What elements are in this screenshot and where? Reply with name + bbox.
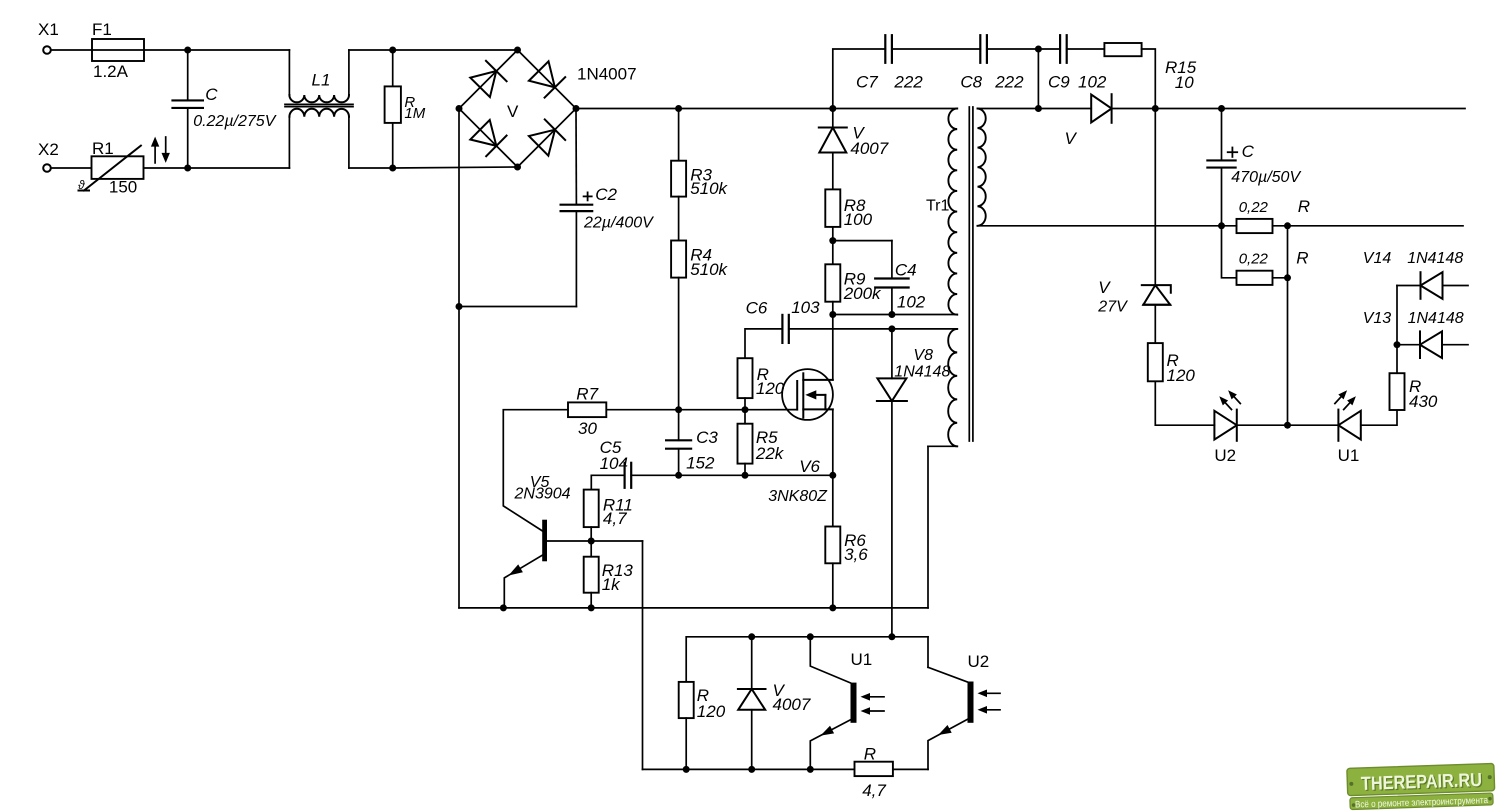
node bridge left bbox=[456, 105, 463, 112]
svg-text:U2: U2 bbox=[968, 652, 990, 671]
node source line bbox=[829, 472, 836, 479]
resistor R 120 (opto) bbox=[679, 682, 694, 718]
svg-text:R: R bbox=[864, 745, 876, 764]
svg-text:430: 430 bbox=[1409, 392, 1438, 411]
node V13 bbox=[1394, 341, 1401, 348]
node C2 return bbox=[456, 303, 463, 310]
wire C2 to left vertical bbox=[459, 306, 576, 308]
capacitor C 470u/50V bbox=[1207, 159, 1235, 161]
wire R5 to C5 line bbox=[744, 464, 746, 476]
node R3 top bbox=[675, 105, 682, 112]
wire C 470u bottom lead bbox=[1221, 168, 1223, 226]
diode V 4007 (opto) bbox=[738, 689, 766, 710]
capacitor C9 102 bbox=[1059, 35, 1061, 63]
wire C5 to C3 node bbox=[631, 474, 678, 476]
diode V8 1N4148 bbox=[877, 378, 907, 401]
wire U1 emitter bbox=[810, 720, 851, 770]
thermistor R1 diagonal bbox=[79, 190, 90, 192]
wire node to V13 bbox=[1397, 344, 1420, 346]
resistor R 120 (zener chain) bbox=[1148, 343, 1163, 381]
wire U2 to center node bbox=[1237, 424, 1288, 426]
wire to bridge bottom bbox=[393, 167, 518, 168]
wire aux top lead bbox=[892, 328, 957, 330]
capacitor C5 104 bbox=[623, 463, 625, 488]
svg-text:3NK80Z: 3NK80Z bbox=[768, 488, 828, 505]
svg-text:L1: L1 bbox=[312, 71, 331, 90]
node base line bbox=[588, 538, 595, 545]
terminal X1 bbox=[43, 46, 51, 54]
node R5 bottom bbox=[742, 472, 749, 479]
capacitor C lead bottom bbox=[187, 108, 189, 168]
diode V (output rectifier) bbox=[1091, 94, 1111, 123]
svg-text:2N3904: 2N3904 bbox=[514, 486, 571, 503]
wire U2 collector down bbox=[927, 637, 929, 668]
fuse F1 bbox=[92, 39, 144, 61]
LED U1 light arrow 1 bbox=[1344, 401, 1351, 409]
wire node to R13 bbox=[590, 541, 592, 557]
wire R 120 to opto bottom rail bbox=[685, 718, 687, 769]
wire R7 to C3 node bbox=[606, 409, 678, 411]
svg-text:4,7: 4,7 bbox=[603, 509, 627, 528]
wire R11 to C5 bbox=[591, 475, 624, 489]
U1 light arrow 1 bbox=[868, 696, 884, 698]
bridge diode top-left bbox=[470, 61, 507, 98]
svg-text:V14: V14 bbox=[1363, 250, 1392, 267]
inductor L1 winding top bbox=[289, 95, 349, 102]
wire to 0,22 bottom bbox=[1222, 226, 1237, 278]
svg-text:0,22: 0,22 bbox=[1239, 251, 1269, 268]
wire left vertical to bottom rail bbox=[458, 307, 460, 608]
svg-text:V: V bbox=[1098, 278, 1111, 297]
node LED line center bbox=[1284, 422, 1291, 429]
wire R 4,7 to U2 emitter bbox=[893, 768, 928, 770]
svg-text:C6: C6 bbox=[746, 299, 768, 318]
transistor V5 2N3904 base bar bbox=[542, 520, 547, 562]
resistor R4 510k bbox=[671, 241, 686, 278]
wire node to C4 top bbox=[833, 240, 892, 242]
svg-text:120: 120 bbox=[1167, 366, 1196, 385]
transformer Tr1 core bbox=[968, 107, 970, 441]
wire node up to C7 bbox=[833, 49, 886, 109]
wire L1 to R 1M top bbox=[349, 49, 393, 51]
svg-text:X1: X1 bbox=[38, 20, 59, 39]
node aux top/V8 bbox=[888, 325, 895, 332]
wire output rail 1 to edge bbox=[1222, 108, 1466, 110]
wire node to diode V 4007 bbox=[832, 109, 834, 127]
wire R1 to node bbox=[144, 167, 188, 169]
svg-text:V13: V13 bbox=[1363, 310, 1392, 327]
node R 1M bottom bbox=[389, 165, 396, 172]
wire U2 emitter bbox=[928, 719, 968, 769]
resistor R5 22k bbox=[738, 424, 753, 464]
C 470u plus sign bbox=[1228, 151, 1238, 153]
svg-text:510k: 510k bbox=[690, 260, 728, 279]
svg-text:F1: F1 bbox=[92, 20, 112, 39]
wire rail R3 node to V/C7 node bbox=[679, 108, 833, 110]
U2 light arrow 2 bbox=[985, 709, 1000, 711]
wire to rectifier diode V bbox=[1038, 108, 1091, 110]
wire R 430 to V13 node bbox=[1396, 345, 1398, 374]
svg-text:0,22: 0,22 bbox=[1239, 199, 1269, 216]
node U1 collector bbox=[807, 633, 814, 640]
svg-text:1N4148: 1N4148 bbox=[894, 364, 950, 381]
resistor R 430 bbox=[1390, 373, 1405, 410]
wire down to LED line bbox=[1287, 278, 1289, 425]
wire R 120 to LED U2 bbox=[1155, 381, 1214, 425]
node R15/zener bbox=[1152, 105, 1159, 112]
capacitor C8 222 bbox=[979, 35, 981, 63]
svg-text:3,6: 3,6 bbox=[844, 545, 868, 564]
capacitor C4 102 bbox=[875, 277, 908, 279]
wire bottom rail right part bbox=[833, 607, 928, 609]
wire R6 to bottom rail bbox=[832, 563, 834, 608]
wire zener to R 120 bbox=[1154, 305, 1156, 343]
capacitor C (X-cap) lead top bbox=[187, 50, 189, 101]
svg-text:22µ/400V: 22µ/400V bbox=[583, 215, 654, 232]
wire L1 right bottom lead bbox=[348, 117, 350, 168]
node secondary top bbox=[1035, 105, 1042, 112]
wire R13 to bottom rail bbox=[590, 593, 592, 608]
svg-text:103: 103 bbox=[791, 298, 820, 317]
bridge diode bottom-right bbox=[528, 119, 565, 156]
optocoupler U2 phototransistor bbox=[968, 682, 974, 723]
wire node to R9 bbox=[832, 241, 834, 265]
svg-text:R7: R7 bbox=[576, 385, 598, 404]
node gate line R120/R5 bbox=[742, 406, 749, 413]
svg-text:U2: U2 bbox=[1214, 446, 1236, 465]
svg-text:U1: U1 bbox=[1338, 446, 1360, 465]
svg-text:30: 30 bbox=[578, 419, 597, 438]
wire R11 to base node bbox=[590, 527, 592, 541]
svg-text:THEREPAIR.RU: THEREPAIR.RU bbox=[1361, 770, 1483, 795]
transformer Tr1 primary winding bbox=[948, 109, 957, 315]
bridge rectifier V 1N4007 outline bbox=[459, 50, 576, 167]
wire U1 collector bbox=[810, 637, 850, 683]
svg-text:1N4148: 1N4148 bbox=[1407, 250, 1463, 267]
inductor L1 winding bottom bbox=[289, 109, 349, 117]
wire base corner down to opto rail bbox=[642, 541, 644, 769]
terminal X2 bbox=[43, 164, 51, 172]
svg-text:22k: 22k bbox=[755, 444, 785, 463]
svg-text:V8: V8 bbox=[913, 347, 933, 364]
wire R8 to node bbox=[832, 227, 834, 241]
wire rail up to aux winding bottom bbox=[927, 446, 929, 608]
node rail2/0,22 bbox=[1218, 222, 1225, 229]
wire to bridge top bbox=[393, 49, 518, 51]
wire opto rail top left bbox=[686, 637, 752, 682]
node C 470u top bbox=[1218, 105, 1225, 112]
wire C4 bottom lead bbox=[891, 288, 893, 315]
LED U1 light arrow 2 bbox=[1335, 395, 1342, 403]
node C8/C9 bbox=[1035, 46, 1042, 53]
node bridge right bbox=[573, 105, 580, 112]
U2 emitter arrow bbox=[938, 725, 952, 735]
svg-text:C4: C4 bbox=[895, 260, 917, 279]
node 0,22 bottom right bbox=[1284, 274, 1291, 281]
wire node to V 4007 (opto) bbox=[751, 637, 753, 689]
node V4007 top bbox=[748, 633, 755, 640]
wire C5 line bbox=[679, 474, 745, 476]
svg-text:1.2A: 1.2A bbox=[93, 62, 129, 81]
U1 emitter arrow bbox=[821, 726, 835, 736]
wire C8 to node bbox=[987, 48, 1039, 50]
wire X2 to R1 bbox=[51, 167, 92, 169]
svg-text:1k: 1k bbox=[602, 575, 621, 594]
resistor R9 200k bbox=[825, 264, 840, 301]
wire V14 to edge bbox=[1443, 285, 1469, 287]
svg-text:V: V bbox=[507, 102, 519, 121]
wire 0,22 right link bbox=[1287, 226, 1289, 278]
node snubber top bbox=[829, 105, 836, 112]
U1 light arrow 2 bbox=[868, 710, 884, 712]
wire opto top rail bbox=[752, 636, 811, 638]
wire center node to U1 bbox=[1288, 424, 1339, 426]
wire node down to secondary rail bbox=[1037, 49, 1039, 109]
node bridge bottom bbox=[514, 164, 521, 171]
node input bottom bbox=[184, 165, 191, 172]
C2 plus sign bbox=[584, 195, 592, 197]
svg-text:0.22µ/275V: 0.22µ/275V bbox=[193, 113, 277, 130]
svg-text:100: 100 bbox=[844, 210, 873, 229]
resistor R15 10 bbox=[1104, 43, 1141, 56]
node R6 bottom rail bbox=[829, 604, 836, 611]
svg-text:120: 120 bbox=[697, 702, 726, 721]
svg-text:C: C bbox=[1242, 142, 1255, 161]
wire R3 to R4 bbox=[678, 197, 680, 241]
wire R15 to output rail bbox=[1142, 49, 1156, 109]
svg-text:120: 120 bbox=[756, 379, 785, 398]
svg-text:4007: 4007 bbox=[773, 695, 811, 714]
node V8 opto rail bbox=[888, 633, 895, 640]
wire V5 base to node bbox=[547, 540, 591, 542]
wire node to R3 bbox=[678, 109, 680, 161]
resistor R 4,7 bbox=[855, 762, 893, 776]
wire secondary top lead bbox=[978, 108, 1039, 110]
wire R7 to V5 collector bbox=[503, 410, 568, 531]
node 0,22 top right bbox=[1284, 222, 1291, 229]
wire bridge left node down bbox=[458, 109, 460, 307]
wire R120 to gate line bbox=[744, 398, 746, 410]
node input top bbox=[184, 47, 191, 54]
svg-text:510k: 510k bbox=[690, 179, 728, 198]
svg-text:Tr1: Tr1 bbox=[926, 197, 950, 214]
wire C9 to R15 bbox=[1067, 48, 1105, 50]
transistor V5 emitter bbox=[504, 554, 544, 608]
resistor R6 3,6 bbox=[825, 527, 840, 564]
svg-text:10: 10 bbox=[1175, 73, 1194, 92]
node R8/R9/C4 bbox=[829, 237, 836, 244]
logo THEREPAIR.RU badge bbox=[1347, 763, 1495, 810]
svg-text:R: R bbox=[1298, 197, 1310, 216]
wire C5 line to source bbox=[745, 474, 833, 476]
resistor R 120 (gate) bbox=[738, 358, 753, 398]
wire output rail 2 left part bbox=[978, 225, 1222, 227]
capacitor C7 222 bbox=[884, 35, 886, 63]
svg-text:27V: 27V bbox=[1097, 299, 1128, 316]
svg-text:C7: C7 bbox=[856, 73, 878, 92]
wire L1 right top lead bbox=[348, 50, 350, 95]
LED U2 light arrow 2 bbox=[1233, 395, 1240, 403]
svg-text:V6: V6 bbox=[799, 457, 820, 476]
wire node up to V14 bbox=[1396, 286, 1398, 345]
wire V8 down to opto rail bbox=[891, 401, 893, 637]
optocoupler U1 phototransistor bbox=[851, 683, 857, 723]
wire base line to corner bbox=[591, 540, 642, 542]
wire primary bottom lead left bbox=[833, 314, 892, 316]
wire C7 to C8 bbox=[892, 48, 980, 50]
resistor R8 100 bbox=[825, 189, 840, 227]
resistor R 1M bbox=[392, 50, 394, 86]
wire L1 left top lead bbox=[288, 50, 290, 95]
node bridge top bbox=[514, 47, 521, 54]
arrow up (varistor mark) bbox=[154, 145, 156, 163]
node V5 emitter rail bbox=[500, 604, 507, 611]
wire aux bottom lead bbox=[928, 445, 957, 447]
transistor V5 emitter arrow bbox=[509, 564, 523, 575]
wire output rail 1 part bbox=[1155, 108, 1221, 110]
wire diode to node bbox=[1112, 108, 1156, 110]
wire R4 down to gate line bbox=[678, 278, 680, 410]
wire to MOSFET gate bbox=[745, 409, 797, 411]
inductor L1 core bbox=[285, 103, 353, 105]
capacitor C6 103 bbox=[781, 315, 783, 343]
svg-text:1M: 1M bbox=[404, 105, 425, 122]
svg-text:U1: U1 bbox=[851, 650, 873, 669]
svg-text:C8: C8 bbox=[960, 73, 982, 92]
wire gate line bbox=[679, 409, 745, 411]
svg-text:C: C bbox=[205, 85, 218, 104]
svg-text:222: 222 bbox=[893, 73, 923, 92]
LED U2 light arrow 1 bbox=[1224, 401, 1231, 409]
wire bottom rail left part bbox=[459, 607, 833, 609]
svg-text:ϑ: ϑ bbox=[78, 178, 85, 192]
wire C4 top lead bbox=[891, 241, 893, 279]
svg-text:C9: C9 bbox=[1048, 73, 1070, 92]
U2 light arrow 1 bbox=[985, 692, 1000, 694]
wire to V14 bbox=[1397, 285, 1421, 287]
svg-text:4007: 4007 bbox=[850, 139, 888, 158]
svg-text:222: 222 bbox=[994, 73, 1024, 92]
wire output rail 2 to edge bbox=[1288, 225, 1464, 227]
wire X1 to F1 bbox=[51, 49, 92, 51]
capacitor C2 22u/400V bbox=[561, 204, 593, 206]
svg-text:470µ/50V: 470µ/50V bbox=[1231, 169, 1301, 186]
wire node to L1 bottom-left bbox=[188, 167, 290, 169]
svg-text:102: 102 bbox=[897, 293, 926, 312]
capacitor C3 152 bbox=[678, 410, 680, 441]
wire U2 collector diagonal bbox=[928, 667, 968, 682]
svg-text:V: V bbox=[1065, 129, 1078, 148]
wire rail to Tr1 primary top bbox=[833, 108, 957, 110]
transformer Tr1 secondary winding bbox=[978, 109, 986, 226]
transformer Tr1 auxiliary winding bbox=[948, 329, 957, 446]
svg-text:150: 150 bbox=[109, 178, 137, 197]
wire node to V8 bbox=[891, 329, 893, 379]
LED U1 bbox=[1338, 410, 1360, 441]
svg-text:X2: X2 bbox=[38, 140, 59, 159]
wire rail to R 4,7 bbox=[810, 768, 854, 770]
wire node to R5 bbox=[744, 410, 746, 424]
LED U2 bbox=[1214, 410, 1236, 441]
diode V14 1N4148 bbox=[1421, 272, 1443, 299]
wire V13 to edge bbox=[1442, 344, 1468, 346]
node C3/C5 line bbox=[675, 472, 682, 479]
diode V13 1N4148 bbox=[1420, 331, 1442, 358]
wire MOSFET source down bbox=[832, 409, 834, 475]
bridge diode top-right bbox=[528, 61, 565, 98]
MOSFET V6 3NK80Z bbox=[782, 369, 833, 420]
svg-text:104: 104 bbox=[600, 454, 628, 473]
node primary bottom left bbox=[829, 311, 836, 318]
resistor R 0,22 (top) bbox=[1237, 219, 1273, 233]
wire bridge right to C2 bbox=[575, 109, 577, 205]
resistor R3 510k bbox=[671, 161, 686, 197]
wire node to C9 bbox=[1038, 48, 1060, 50]
svg-text:C2: C2 bbox=[595, 185, 617, 204]
svg-text:R: R bbox=[1296, 249, 1308, 268]
logo screws bbox=[1349, 782, 1353, 786]
wire opto top rail right bbox=[892, 636, 928, 638]
svg-text:C3: C3 bbox=[696, 428, 718, 447]
wire rail bridge to R3 node bbox=[576, 108, 679, 110]
capacitor C 0.22u/275V bbox=[173, 99, 203, 101]
wire node to C 470u bbox=[1221, 109, 1223, 161]
wire F1 to node bbox=[144, 49, 188, 51]
wire opto bottom rail left bbox=[643, 768, 811, 770]
arrow down (varistor mark) bbox=[165, 137, 167, 155]
wire L1 left bottom lead bbox=[288, 117, 290, 168]
wire C6 to aux winding node bbox=[789, 328, 892, 330]
node R13 bottom rail bbox=[588, 604, 595, 611]
resistor R13 1k bbox=[584, 557, 599, 593]
svg-text:4,7: 4,7 bbox=[862, 781, 886, 800]
node R 1M top bbox=[389, 47, 396, 54]
wire R120 top to C6 bbox=[745, 329, 782, 358]
node R 120 bottom bbox=[683, 766, 690, 773]
wire node down to zener (crosses rail2) bbox=[1154, 109, 1156, 286]
wire U1 to R 430 bbox=[1361, 410, 1397, 425]
resistor R 0,22 (bottom) bbox=[1237, 271, 1273, 285]
wire source node to R6 bbox=[832, 475, 834, 526]
diode V 4007 (clamp) bbox=[819, 128, 847, 153]
wire primary bottom lead right bbox=[892, 314, 957, 316]
wire C2 bottom lead bbox=[575, 211, 577, 306]
zener diode V 27V bbox=[1142, 285, 1171, 305]
svg-text:102: 102 bbox=[1078, 73, 1107, 92]
bridge diode bottom-left bbox=[470, 119, 507, 156]
svg-text:1N4007: 1N4007 bbox=[577, 65, 637, 84]
svg-text:R1: R1 bbox=[92, 139, 114, 158]
wire node down to MOSFET drain bbox=[832, 315, 834, 380]
wire diode to R8 bbox=[832, 153, 834, 190]
wire node to L1 top-left bbox=[188, 49, 290, 51]
svg-text:152: 152 bbox=[686, 454, 715, 473]
resistor R11 4,7 bbox=[584, 490, 599, 527]
node gate line C3 bbox=[675, 406, 682, 413]
wire V 4007 to bottom rail bbox=[751, 710, 753, 770]
wire L1 to R 1M bottom bbox=[349, 167, 393, 169]
node V 4007 bottom bbox=[748, 766, 755, 773]
node U1 emitter rail bbox=[807, 766, 814, 773]
svg-text:1N4148: 1N4148 bbox=[1408, 310, 1464, 327]
node C4/V8 bbox=[888, 311, 895, 318]
wire opto top rail mid bbox=[810, 636, 892, 638]
wire R9 to node bbox=[832, 302, 834, 315]
thermistor R1 bbox=[92, 156, 144, 179]
